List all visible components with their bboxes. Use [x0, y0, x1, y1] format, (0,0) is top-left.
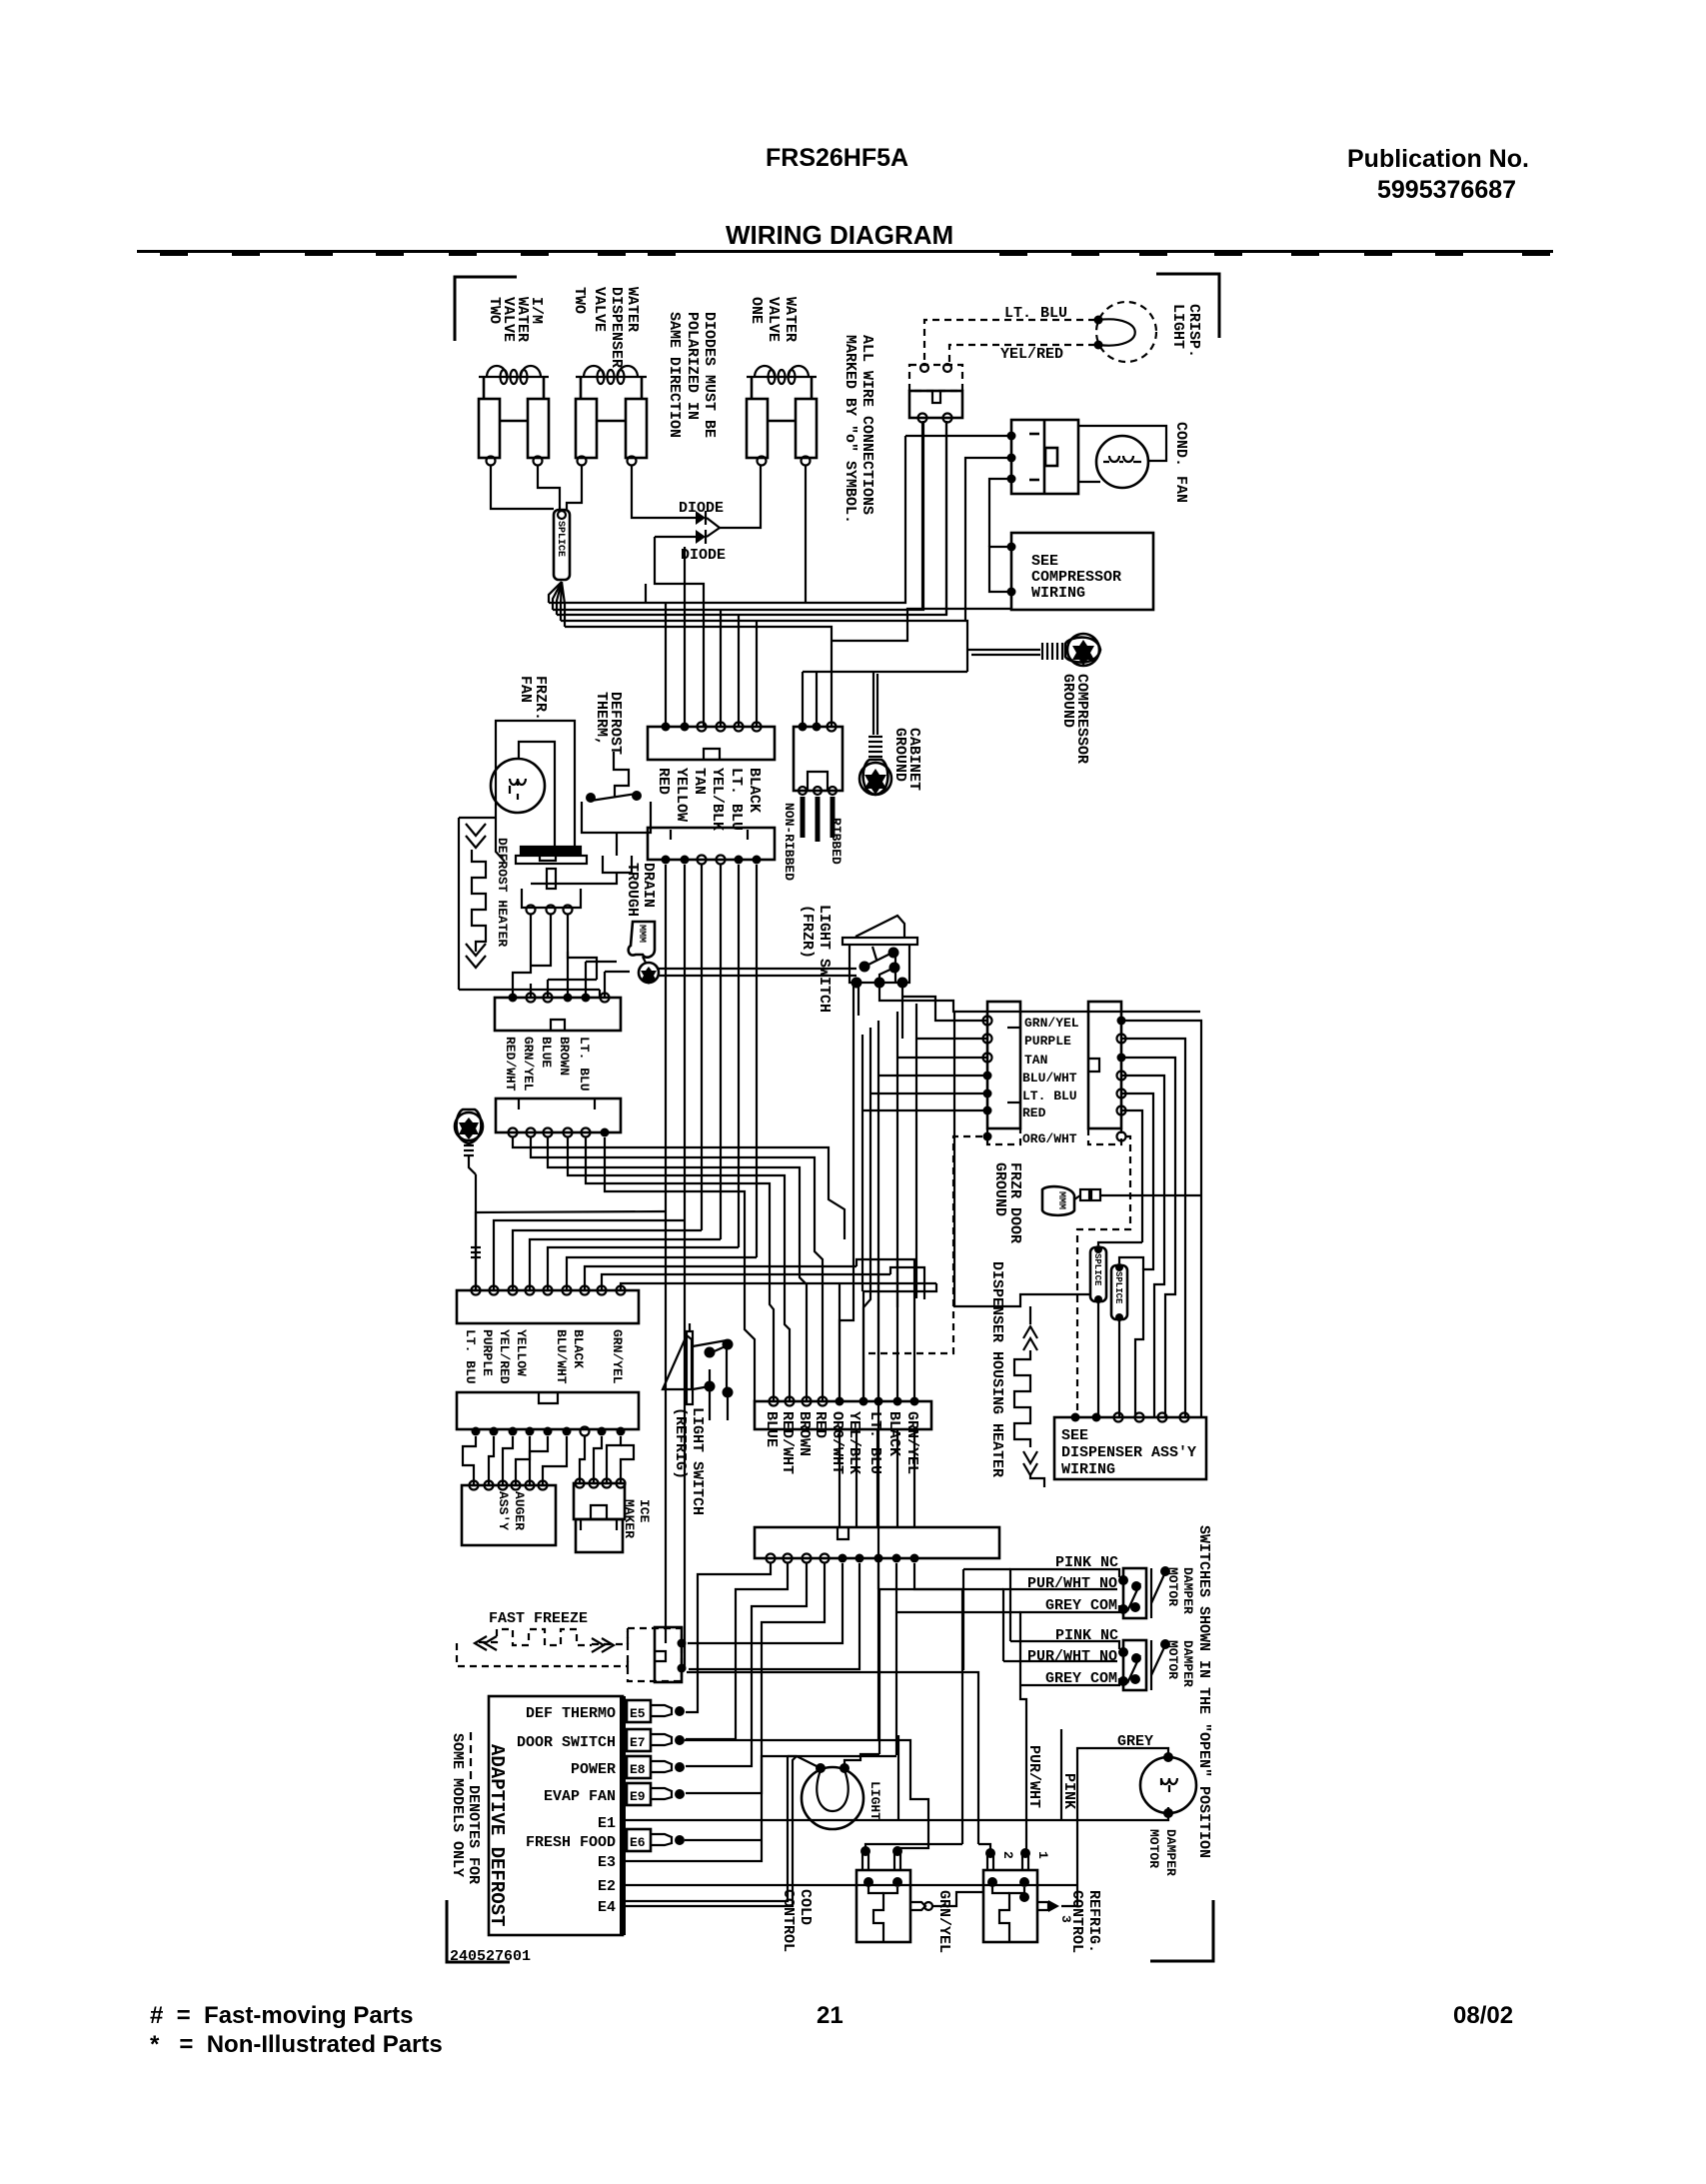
- wire zigzag top to frzr fan: [459, 817, 496, 819]
- wire E7 chain: [685, 1740, 928, 1851]
- fast freeze switch: [655, 1627, 687, 1682]
- ribbed wire stubs: [803, 797, 833, 842]
- splice S1: [554, 510, 570, 580]
- svg-text:YELLOW: YELLOW: [673, 768, 690, 822]
- tab E6: [627, 1829, 685, 1851]
- svg-text:ADAPTIVE DEFROST: ADAPTIVE DEFROST: [486, 1744, 508, 1926]
- label FRZR DOOR GROUND: [991, 1162, 1023, 1243]
- svg-text:LT. BLU: LT. BLU: [866, 1411, 883, 1474]
- ground lug left: [455, 1109, 483, 1174]
- svg-text:PUR/WHT: PUR/WHT: [1025, 1745, 1042, 1808]
- wire relay to cond fan bottom: [1078, 481, 1100, 483]
- wires heater area to box11: [513, 952, 630, 998]
- svg-text:FRS26HF5A: FRS26HF5A: [766, 144, 908, 172]
- wire PUR/WHT vertical: [1020, 1685, 1026, 1854]
- svg-text:E5: E5: [630, 1706, 646, 1721]
- svg-text:1: 1: [1035, 1851, 1050, 1859]
- valve B terminals: [578, 457, 587, 466]
- svg-text:E1: E1: [598, 1815, 616, 1832]
- box4 dashed bottom: [863, 1128, 1020, 1353]
- label CABINET GROUND: [891, 728, 922, 791]
- svg-text:THERM,: THERM,: [593, 692, 610, 746]
- note ALL WIRE CONNECTIONS MARKED BY o SYMBOL: [842, 335, 875, 524]
- wires into box8 top: [745, 1189, 936, 1401]
- auger assy box: [462, 1481, 556, 1546]
- crisp light connector dashed: [909, 364, 962, 391]
- wire cold to refrig: [932, 1892, 983, 1906]
- cold control side tab: [910, 1902, 932, 1910]
- svg-text:CONTROL: CONTROL: [780, 1889, 797, 1952]
- svg-text:DIODE: DIODE: [681, 547, 726, 564]
- svg-text:VALVE: VALVE: [591, 287, 608, 332]
- svg-text:(REFRIG): (REFRIG): [672, 1407, 689, 1479]
- svg-text:DAMPER: DAMPER: [1180, 1567, 1195, 1614]
- drain trough ground lug: [639, 963, 659, 985]
- wire box2 t2 up: [816, 672, 818, 727]
- label DRAIN TROUGH: [624, 863, 657, 917]
- svg-text:POWER: POWER: [571, 1761, 616, 1778]
- svg-text:2: 2: [1000, 1851, 1015, 1859]
- svg-text:(FRZR): (FRZR): [799, 905, 816, 959]
- relay terminals: [1007, 432, 1016, 484]
- svg-text:FAST FREEZE: FAST FREEZE: [489, 1610, 588, 1627]
- refrig control switch: [983, 1870, 1037, 1942]
- svg-text:WIRING: WIRING: [1061, 1461, 1115, 1478]
- svg-text:TAN: TAN: [691, 768, 708, 795]
- wire valve C right down to bus L1: [805, 466, 807, 603]
- wire box1 t5 up: [738, 615, 740, 727]
- water valve A coil: [479, 366, 549, 384]
- connector box8: [755, 1397, 931, 1430]
- label DAMPER MOTOR 3: [1146, 1829, 1178, 1876]
- cold control switch: [856, 1870, 910, 1942]
- wire diode output to valve C: [720, 466, 761, 528]
- wires mid horizontals to right: [856, 1259, 924, 1315]
- wire splice S3 top: [1119, 1257, 1143, 1269]
- svg-text:E2: E2: [598, 1878, 616, 1895]
- svg-text:BROWN: BROWN: [796, 1411, 813, 1456]
- label AUGER ASS'Y: [496, 1491, 527, 1530]
- wire compressor box t1: [989, 547, 1011, 592]
- svg-text:SWITCHES SHOWN IN THE "OPEN" P: SWITCHES SHOWN IN THE "OPEN" POSITION: [1195, 1525, 1212, 1858]
- svg-text:TWO: TWO: [571, 287, 588, 314]
- svg-text:NON-RIBBED: NON-RIBBED: [782, 803, 797, 881]
- wire connector t1 down: [921, 423, 923, 610]
- wires heater terminals down: [513, 915, 597, 994]
- svg-text:WATER: WATER: [782, 297, 799, 342]
- wire E1 to damper motor: [623, 1807, 1168, 1820]
- splice S2: [1090, 1245, 1106, 1303]
- label DEFROST THERM.: [593, 692, 624, 755]
- long bus verticals to bottom: [840, 1021, 990, 1850]
- label CRISP. LIGHT: [1169, 304, 1202, 358]
- svg-text:E7: E7: [630, 1735, 646, 1750]
- drain trough heater: [629, 922, 655, 963]
- svg-text:REFRIG.: REFRIG.: [1085, 1890, 1102, 1953]
- connector box2 ribbed: [794, 723, 843, 796]
- svg-text:TROUGH: TROUGH: [624, 863, 641, 917]
- svg-text:RED: RED: [655, 768, 672, 795]
- svg-text:GROUND: GROUND: [891, 728, 908, 782]
- svg-text:MOTOR: MOTOR: [1165, 1640, 1180, 1679]
- fast freeze arrows: [475, 1636, 614, 1652]
- label REFRIG. CONTROL: [1068, 1890, 1102, 1953]
- svg-text:BLUE: BLUE: [763, 1411, 780, 1447]
- svg-text:240527601: 240527601: [450, 1948, 531, 1965]
- svg-text:ASS'Y: ASS'Y: [496, 1491, 511, 1530]
- wire E6 to right: [685, 1839, 762, 1841]
- valve A terminals: [487, 457, 496, 466]
- connector box12: [496, 1098, 621, 1137]
- svg-text:GRN/YEL: GRN/YEL: [610, 1329, 625, 1384]
- cabinet ground stem: [873, 672, 877, 735]
- label COMPRESSOR GROUND: [1059, 674, 1090, 764]
- tab E9: [627, 1783, 685, 1805]
- svg-text:LIGHT SWITCH: LIGHT SWITCH: [689, 1407, 706, 1515]
- svg-text:DOOR SWITCH: DOOR SWITCH: [517, 1734, 616, 1751]
- svg-text:PURPLE: PURPLE: [1024, 1034, 1071, 1049]
- svg-text:GRN/YEL: GRN/YEL: [935, 1890, 952, 1953]
- svg-text:SEE: SEE: [1031, 553, 1058, 570]
- svg-text:ALL WIRE CONNECTIONS: ALL WIRE CONNECTIONS: [858, 335, 875, 515]
- svg-text:RED: RED: [1022, 1105, 1046, 1120]
- svg-text:MARKED BY "o" SYMBOL.: MARKED BY "o" SYMBOL.: [842, 335, 858, 524]
- svg-text:ICE: ICE: [637, 1499, 652, 1523]
- svg-text:ONE: ONE: [748, 297, 765, 324]
- svg-text:DAMPER: DAMPER: [1180, 1640, 1195, 1687]
- wire therm to box11: [531, 873, 617, 884]
- svg-text:FRESH FOOD: FRESH FOOD: [526, 1834, 616, 1851]
- svg-text:DISPENSER ASS'Y: DISPENSER ASS'Y: [1061, 1444, 1196, 1461]
- damper switch 1 wire loops: [1003, 1569, 1119, 1685]
- wire compressor box t2: [832, 609, 1011, 641]
- svg-text:RIBBED: RIBBED: [829, 818, 844, 865]
- wire valve B left to splice: [567, 466, 582, 510]
- crisp light connector body: [909, 391, 962, 423]
- svg-text:# = Fast-moving Parts: # = Fast-moving Parts: [150, 2002, 413, 2029]
- label LIGHT SWITCH (REFRIG): [672, 1407, 706, 1515]
- svg-text:WIRING: WIRING: [1031, 585, 1085, 602]
- tab E5: [627, 1700, 685, 1722]
- wire box1 t2 up: [684, 547, 686, 727]
- svg-text:SEE: SEE: [1061, 1427, 1088, 1444]
- svg-text:DAMPER: DAMPER: [1163, 1829, 1178, 1876]
- water valve C coil: [747, 366, 817, 384]
- wire diode D2 input: [655, 537, 704, 727]
- wires left of box4: [862, 997, 987, 1589]
- svg-text:* = Non-Illustrated Parts: * = Non-Illustrated Parts: [150, 2031, 443, 2058]
- svg-text:MAKER: MAKER: [622, 1499, 637, 1538]
- svg-text:AUGER: AUGER: [512, 1491, 527, 1530]
- defrost heater element plates: [516, 847, 587, 908]
- svg-text:LIGHT SWITCH: LIGHT SWITCH: [816, 905, 833, 1013]
- svg-text:LIGHT: LIGHT: [867, 1781, 882, 1820]
- svg-text:DISPENSER HOUSING HEATER: DISPENSER HOUSING HEATER: [988, 1261, 1005, 1477]
- wire E4 double: [623, 1756, 797, 1906]
- ground bus 672: [803, 671, 967, 673]
- wire diode area jog: [645, 584, 647, 603]
- note DIODES MUST BE POLARIZED IN SAME DIRECTION: [666, 312, 718, 438]
- fast freeze dashed trace: [457, 1628, 628, 1666]
- defrost heater element terminals: [527, 906, 573, 915]
- svg-text:COND. FAN: COND. FAN: [1172, 422, 1189, 503]
- svg-text:POLARIZED IN: POLARIZED IN: [684, 312, 701, 420]
- refrig control pin 3: [1037, 1900, 1073, 1923]
- svg-text:COLD: COLD: [797, 1889, 814, 1925]
- frzr fan motor: [491, 759, 545, 813]
- svg-text:YEL/BLK: YEL/BLK: [709, 768, 726, 831]
- wire splice S2 top: [1098, 1242, 1142, 1245]
- svg-text:LT. BLU: LT. BLU: [728, 768, 745, 831]
- wires box9 bottom fanout: [686, 1563, 962, 1844]
- damper switch 2 wire loops: [1003, 1641, 1119, 1685]
- svg-text:PUR/WHT NO: PUR/WHT NO: [1027, 1648, 1117, 1665]
- wire E3 riser: [623, 1756, 896, 1861]
- connector box11: [495, 994, 621, 1032]
- svg-text:BLACK: BLACK: [746, 768, 763, 813]
- wires box12 staircase to box8: [513, 1137, 829, 1289]
- bus L5: [565, 627, 832, 727]
- label COLD CONTROL: [780, 1889, 814, 1952]
- wire LT. BLU dashed: [924, 320, 1095, 365]
- compressor ground lug: [1065, 634, 1100, 666]
- svg-text:MMM: MMM: [1055, 1191, 1066, 1209]
- label dashes DENOTES FOR: [449, 1732, 482, 1884]
- see dispenser assy wiring box: [1054, 1413, 1206, 1480]
- svg-text:COMPRESSOR: COMPRESSOR: [1031, 569, 1121, 586]
- label LIGHT SWITCH (FRZR): [799, 905, 833, 1013]
- bus L1: [549, 436, 905, 603]
- wire box2 t1 up: [802, 672, 804, 727]
- wire box1 t4 up: [720, 610, 722, 727]
- svg-text:BLU/WHT: BLU/WHT: [1022, 1071, 1077, 1086]
- label WATER VALVE ONE: [748, 297, 799, 342]
- svg-text:BROWN: BROWN: [557, 1037, 572, 1076]
- wire relay t3: [989, 479, 1011, 547]
- valve C terminals: [758, 457, 767, 466]
- wire valve B right to diode D1: [632, 466, 648, 518]
- wire frzr fan to box11: [496, 820, 505, 862]
- svg-text:YELLOW: YELLOW: [514, 1329, 529, 1376]
- wire relay to cond fan top: [1078, 426, 1166, 461]
- label I/M WATER VALVE TWO: [486, 297, 545, 342]
- svg-text:FAN: FAN: [517, 676, 534, 703]
- svg-text:CRISP.: CRISP.: [1185, 304, 1202, 358]
- compressor relay box: [1011, 420, 1078, 494]
- compressor ground lead: [967, 650, 1040, 655]
- bus L2: [553, 421, 923, 610]
- svg-text:5995376687: 5995376687: [1377, 176, 1516, 204]
- water valve B body: [576, 377, 647, 458]
- label FRZR. FAN: [517, 676, 549, 721]
- splice S3: [1111, 1263, 1127, 1321]
- wires from light switch FRZR: [853, 983, 1200, 1039]
- labels under box6: [463, 1329, 625, 1384]
- svg-text:GRN/YEL: GRN/YEL: [1024, 1016, 1079, 1031]
- svg-text:08/02: 08/02: [1453, 2002, 1513, 2029]
- wire valve A right to splice: [538, 466, 560, 510]
- box5 dashed bottom: [1088, 1128, 1126, 1144]
- svg-text:BLACK: BLACK: [885, 1411, 902, 1456]
- wire splice S3 bottom: [1118, 1319, 1120, 1417]
- frzr door ground heater blob: [1042, 1186, 1201, 1215]
- wire connector t2 down: [945, 423, 947, 615]
- svg-text:EVAP FAN: EVAP FAN: [544, 1788, 616, 1805]
- svg-text:SAME DIRECTION: SAME DIRECTION: [666, 312, 683, 438]
- svg-text:YEL/RED: YEL/RED: [497, 1329, 512, 1384]
- label WATER DISPENSER VALVE TWO: [571, 287, 641, 368]
- damper motor 3: [1140, 1752, 1196, 1818]
- splice fan-out: [549, 582, 565, 627]
- diode D1: [648, 511, 720, 528]
- connector box3: [648, 828, 775, 865]
- bus L4: [561, 621, 967, 672]
- svg-text:DEF THERMO: DEF THERMO: [526, 1705, 616, 1722]
- svg-text:LT. BLU: LT. BLU: [463, 1329, 478, 1384]
- cond fan motor: [1096, 436, 1148, 488]
- wire fast freeze t2 long: [687, 1672, 978, 1844]
- wires right of box5: [1121, 1021, 1201, 1417]
- svg-text:SPLICE: SPLICE: [1113, 1271, 1123, 1304]
- svg-text:SOME MODELS ONLY: SOME MODELS ONLY: [449, 1733, 466, 1877]
- svg-text:SPLICE: SPLICE: [1092, 1253, 1102, 1286]
- label DAMPER MOTOR 1: [1165, 1567, 1195, 1614]
- freezer light lamp: [788, 1754, 879, 1829]
- water valve B coil: [576, 366, 647, 384]
- connector box6: [457, 1211, 936, 1323]
- tab E7: [627, 1729, 685, 1751]
- see compressor wiring box: [1007, 533, 1154, 610]
- water valve A body: [479, 377, 549, 458]
- light switch FRZR rocker: [843, 916, 917, 983]
- svg-text:LT. BLU: LT. BLU: [1022, 1089, 1077, 1103]
- svg-text:E3: E3: [598, 1854, 616, 1871]
- svg-text:RED: RED: [812, 1411, 829, 1438]
- svg-text:GRN/YEL: GRN/YEL: [521, 1037, 536, 1092]
- svg-text:RED/WHT: RED/WHT: [503, 1037, 518, 1092]
- main bus verticals mid: [666, 865, 757, 1670]
- svg-text:ORG/WHT: ORG/WHT: [829, 1411, 846, 1474]
- svg-text:E4: E4: [598, 1899, 616, 1916]
- labels under box1: [655, 768, 763, 831]
- corner bracket top-right: [1156, 274, 1219, 338]
- ice maker connector: [574, 1479, 626, 1553]
- bus L3: [557, 421, 946, 615]
- frzr fan bracket: [496, 721, 575, 852]
- svg-text:BLU/WHT: BLU/WHT: [554, 1329, 569, 1384]
- connector box1: [648, 723, 775, 761]
- svg-text:TWO: TWO: [486, 297, 503, 324]
- connector box7: [457, 1392, 639, 1436]
- connector box4: [983, 1002, 1021, 1128]
- corner bracket bottom-right: [1150, 1900, 1213, 1961]
- svg-text:TAN: TAN: [1024, 1053, 1047, 1068]
- cold control pins: [860, 1846, 902, 1870]
- label DAMPER MOTOR 2: [1165, 1640, 1195, 1687]
- wire box1 t1 up: [665, 603, 667, 727]
- wire to splice from left: [954, 1012, 1090, 1306]
- light switch REFRIG contacts: [705, 1339, 734, 1398]
- svg-text:E9: E9: [630, 1789, 646, 1804]
- wire valve A left to splice: [491, 466, 554, 509]
- svg-text:21: 21: [817, 2002, 844, 2029]
- defrost therm lead: [614, 752, 629, 798]
- diode D2: [655, 528, 720, 544]
- wire box8 column pass-through: [840, 1429, 914, 1527]
- svg-text:YEL/RED: YEL/RED: [1000, 346, 1063, 363]
- wire GREY chain: [1061, 1748, 1168, 1906]
- svg-text:VALVE: VALVE: [765, 297, 782, 342]
- corner bracket top-left: [455, 277, 517, 341]
- crisper light lamp: [1094, 302, 1157, 362]
- water valve C body: [747, 377, 817, 458]
- label ICE MAKER: [622, 1499, 652, 1538]
- wire box1 t6 up: [756, 621, 758, 727]
- svg-text:MOTOR: MOTOR: [1146, 1829, 1161, 1868]
- svg-text:DISPENSER: DISPENSER: [608, 287, 625, 368]
- fast freeze switch dashed box: [628, 1628, 682, 1681]
- svg-text:BLUE: BLUE: [539, 1037, 554, 1068]
- labels under box11: [503, 1037, 592, 1092]
- light switch FRZR contacts: [852, 948, 908, 989]
- wire splice S2 bottom: [1097, 1301, 1099, 1417]
- wire lug to box6 t1: [475, 1174, 477, 1290]
- svg-text:WIRING DIAGRAM: WIRING DIAGRAM: [726, 220, 953, 250]
- wires box7 to auger assy: [463, 1436, 567, 1485]
- connector box5: [1088, 1002, 1126, 1128]
- svg-text:GRN/YEL: GRN/YEL: [903, 1411, 920, 1474]
- dashed ORG/WHT route: [1077, 1136, 1130, 1413]
- connector box9: [755, 1527, 999, 1563]
- wire PINK vertical: [1060, 1729, 1062, 1820]
- cabinet ground hatching: [868, 737, 882, 757]
- cabinet ground lug: [859, 760, 891, 795]
- svg-text:WATER: WATER: [624, 287, 641, 332]
- svg-text:PURPLE: PURPLE: [480, 1329, 495, 1376]
- refrig control pins: [985, 1848, 1050, 1870]
- svg-text:MMM: MMM: [636, 925, 647, 943]
- defrost thermostat: [582, 791, 651, 873]
- svg-text:E6: E6: [630, 1835, 646, 1850]
- damper switch 2 body: [1118, 1639, 1170, 1690]
- svg-text:DEFROST HEATER: DEFROST HEATER: [495, 838, 510, 947]
- damper switch 1 body: [1118, 1566, 1170, 1618]
- svg-text:YEL/BLK: YEL/BLK: [846, 1411, 862, 1474]
- adaptive defrost board: [489, 1696, 623, 1935]
- svg-text:Publication No.: Publication No.: [1347, 145, 1529, 173]
- svg-text:E8: E8: [630, 1762, 646, 1777]
- wire drain trough to light switch: [659, 969, 856, 976]
- dispenser housing heater zigzag: [1014, 1306, 1044, 1487]
- svg-text:RED/WHT: RED/WHT: [779, 1411, 796, 1474]
- svg-text:PINK: PINK: [1060, 1773, 1077, 1809]
- svg-text:GROUND: GROUND: [991, 1162, 1008, 1216]
- title rule: [137, 250, 1553, 253]
- wire E2: [623, 1884, 1077, 1886]
- svg-text:DRAIN: DRAIN: [640, 863, 657, 908]
- svg-text:GROUND: GROUND: [1059, 674, 1076, 728]
- wire YEL/RED dashed: [949, 345, 1095, 365]
- tab E8: [627, 1756, 685, 1778]
- svg-text:BLACK: BLACK: [571, 1329, 586, 1368]
- svg-text:ORG/WHT: ORG/WHT: [1022, 1131, 1077, 1146]
- wire relay t1: [905, 435, 1011, 437]
- light switch REFRIG rocker: [663, 1331, 728, 1404]
- wires feeding damper switches: [878, 1569, 1020, 1670]
- corner bracket bottom-left: [447, 1900, 510, 1962]
- svg-text:MOTOR: MOTOR: [1165, 1567, 1180, 1606]
- svg-text:LIGHT: LIGHT: [1169, 304, 1186, 349]
